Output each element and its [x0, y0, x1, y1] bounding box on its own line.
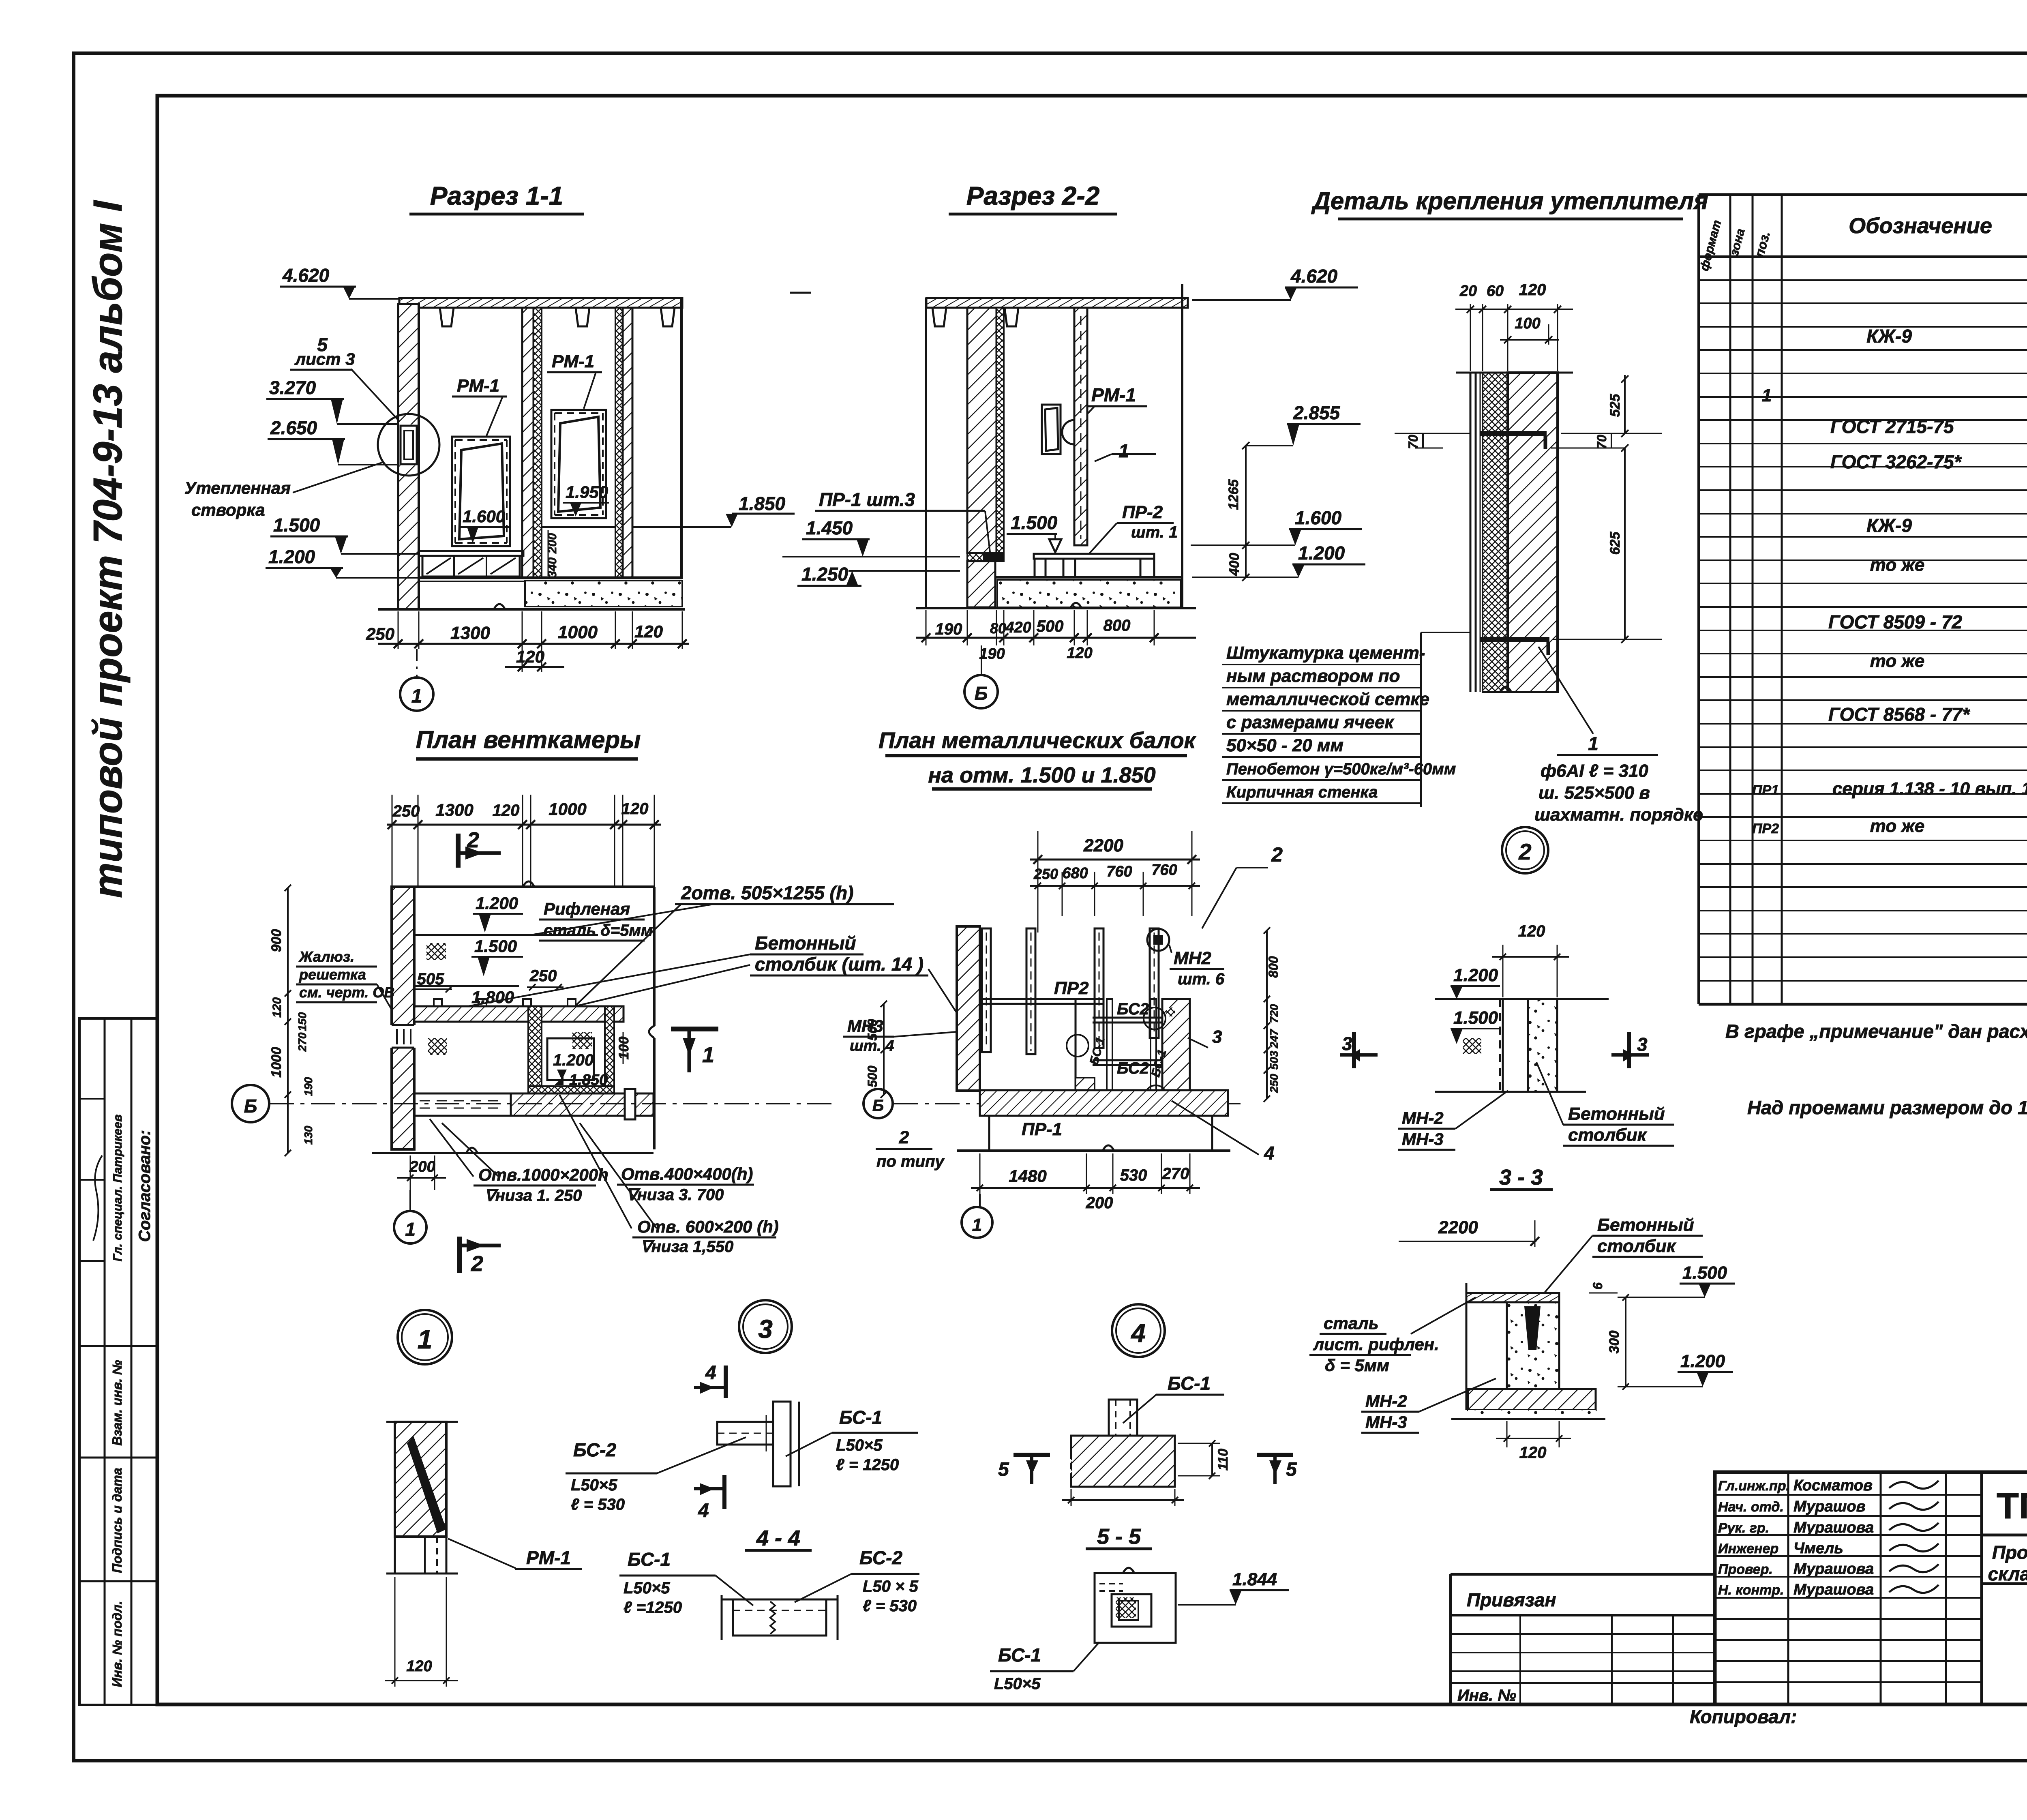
svg-text:1: 1 — [972, 1215, 982, 1235]
svg-text:Инженер: Инженер — [1718, 1541, 1778, 1556]
svg-text:Косматов: Косматов — [1793, 1477, 1873, 1494]
svg-text:Рук. гр.: Рук. гр. — [1718, 1520, 1769, 1536]
svg-text:1000: 1000 — [549, 800, 586, 819]
МН2 anchor circle — [1147, 929, 1169, 951]
plan inner floor edge — [414, 934, 598, 936]
svg-text:2.855: 2.855 — [1293, 402, 1341, 423]
svg-text:Утепленная: Утепленная — [184, 478, 291, 497]
svg-text:20: 20 — [1459, 283, 1477, 300]
svg-text:2отв. 505×1255 (h): 2отв. 505×1255 (h) — [681, 882, 853, 903]
svg-text:БС-1: БС-1 — [1168, 1373, 1211, 1394]
plan right boundary — [653, 887, 656, 1026]
svg-text:∇низа 3. 700: ∇низа 3. 700 — [626, 1186, 724, 1204]
svg-text:Б: Б — [872, 1097, 884, 1115]
svg-text:В графе „примечание" дан рас: В графе „примечание" дан расход материал… — [1725, 1020, 2027, 1042]
svg-text:лист. рифлен.: лист. рифлен. — [1313, 1335, 1439, 1354]
svg-text:ГОСТ 8568 - 77*: ГОСТ 8568 - 77* — [1828, 704, 1970, 725]
ground line — [378, 608, 685, 611]
gilza sleeve — [624, 1088, 636, 1120]
svg-text:120: 120 — [493, 802, 520, 819]
section 2-2 niche window — [1042, 405, 1061, 454]
svg-text:Мурашова: Мурашова — [1793, 1581, 1874, 1598]
svg-text:1.600: 1.600 — [1295, 507, 1342, 528]
section 1-1 middle wall — [522, 308, 534, 578]
detail right dim 625 — [1624, 448, 1626, 639]
svg-text:Отв.400×400(h): Отв.400×400(h) — [621, 1164, 753, 1183]
circle 1 balok — [979, 1194, 981, 1207]
svg-text:Разрез 1-1: Разрез 1-1 — [430, 181, 564, 210]
vertical dim chain 1265/400 — [1245, 446, 1247, 577]
section 1-1 left wall (hatched) — [398, 304, 419, 609]
svg-text:1.200: 1.200 — [553, 1051, 594, 1069]
svg-text:∇низа 1,550: ∇низа 1,550 — [641, 1238, 733, 1256]
svg-text:247: 247 — [1268, 1029, 1280, 1048]
section 2-2 left boundary — [925, 298, 927, 607]
svg-text:Мурашова: Мурашова — [1793, 1519, 1874, 1536]
svg-text:ГОСТ 3262-75*: ГОСТ 3262-75* — [1830, 451, 1962, 472]
section 1-1 right wall — [615, 308, 623, 578]
lintel band ПР-1 — [967, 553, 1004, 561]
svg-text:Инв. №: Инв. № — [1457, 1687, 1516, 1704]
section 1-1 roof corbels — [440, 308, 454, 326]
svg-text:150: 150 — [296, 1012, 309, 1031]
svg-text:1: 1 — [1762, 386, 1772, 405]
svg-text:2: 2 — [471, 1252, 483, 1276]
detail anchor ledge top — [1480, 431, 1547, 436]
svg-text:ным раствором по: ным раствором по — [1226, 666, 1400, 686]
svg-text:2: 2 — [1271, 843, 1283, 866]
svg-text:Гл. специал. Патрикеев: Гл. специал. Патрикеев — [111, 1115, 124, 1262]
svg-text:800: 800 — [1103, 617, 1131, 635]
section 2-2 roof slab — [926, 298, 1188, 308]
svg-text:120: 120 — [1067, 645, 1092, 662]
svg-text:420: 420 — [1005, 619, 1031, 636]
svg-text:δ = 5мм: δ = 5мм — [1325, 1356, 1389, 1375]
detail 1 dim 120 — [394, 1577, 396, 1687]
svg-text:склада нефтепродуктов емк. 1ты: склада нефтепродуктов емк. 1тыс.куб.м. — [1988, 1563, 2027, 1584]
svg-text:70: 70 — [1594, 435, 1609, 449]
section marker 2 (bottom) — [457, 1237, 462, 1273]
svg-text:5 - 5: 5 - 5 — [1097, 1524, 1141, 1549]
axis + circle Б (balok) — [894, 1103, 1241, 1104]
svg-text:3: 3 — [758, 1314, 773, 1344]
svg-text:3: 3 — [1342, 1033, 1352, 1054]
svg-text:130: 130 — [302, 1125, 315, 1145]
svg-text:Разрез 2-2: Разрез 2-2 — [966, 181, 1100, 210]
circle 1 below plan — [409, 1190, 411, 1211]
svg-text:110: 110 — [1215, 1449, 1231, 1471]
plan section marker 2 (top) — [456, 834, 461, 868]
svg-text:4: 4 — [705, 1362, 716, 1384]
svg-text:2.650: 2.650 — [270, 417, 317, 438]
svg-text:ПР1: ПР1 — [1752, 782, 1779, 798]
svg-text:серия 1.138 - 10 вып. 1: серия 1.138 - 10 вып. 1 — [1832, 779, 2027, 799]
svg-text:60: 60 — [1487, 283, 1504, 300]
svg-text:на отм. 1.500 и 1.850: на отм. 1.500 и 1.850 — [928, 763, 1155, 787]
plan ground line — [372, 1152, 654, 1154]
svg-text:ф6АI ℓ = 310: ф6АI ℓ = 310 — [1541, 761, 1648, 781]
crosshatch symbols — [426, 943, 446, 960]
svg-text:900: 900 — [269, 929, 284, 952]
svg-text:6: 6 — [1590, 1282, 1605, 1290]
svg-text:120: 120 — [1519, 281, 1546, 299]
svg-text:70: 70 — [1406, 435, 1421, 449]
svg-text:3 - 3: 3 - 3 — [1499, 1165, 1543, 1190]
title block signature columns — [1787, 1472, 1789, 1704]
ПР2 horizontal beam — [980, 998, 1103, 1000]
svg-text:800: 800 — [1266, 956, 1281, 978]
plan walls — [392, 887, 414, 1149]
section 2-2 roof corbels — [932, 308, 946, 326]
svg-text:ГОСТ 8509 - 72: ГОСТ 8509 - 72 — [1828, 611, 1963, 632]
svg-text:200: 200 — [409, 1158, 435, 1175]
svg-text:ПР2: ПР2 — [1054, 978, 1089, 998]
svg-text:Бетонный: Бетонный — [1597, 1215, 1694, 1235]
margin approval table (Согласовано) — [79, 1018, 157, 1346]
svg-text:3.270: 3.270 — [269, 377, 316, 398]
detail bottom break — [1500, 687, 1511, 692]
svg-text:270: 270 — [296, 1032, 309, 1052]
svg-text:РМ-1: РМ-1 — [552, 352, 594, 371]
detail right dim 70 — [1611, 433, 1612, 448]
concrete under floor 2-2 — [997, 580, 1181, 607]
svg-text:РМ-1: РМ-1 — [457, 376, 499, 396]
svg-text:4: 4 — [1264, 1143, 1275, 1164]
hanging beams ПР2 — [982, 928, 991, 1052]
svg-text:ℓ = 530: ℓ = 530 — [863, 1597, 917, 1615]
svg-text:760: 760 — [1151, 862, 1177, 879]
plan top boundary — [392, 885, 654, 888]
svg-text:столбик (шт. 14 ): столбик (шт. 14 ) — [755, 954, 924, 975]
svg-text:1000: 1000 — [558, 622, 598, 642]
svg-text:КЖ-9: КЖ-9 — [1866, 326, 1912, 347]
bench ПР-2 — [1034, 554, 1154, 559]
svg-text:МН-3: МН-3 — [1402, 1130, 1444, 1149]
dim 110 — [1211, 1443, 1213, 1476]
svg-text:1: 1 — [405, 1219, 416, 1240]
svg-text:Взам. инв. №: Взам. инв. № — [110, 1360, 124, 1446]
svg-text:500: 500 — [865, 1065, 880, 1087]
dimension row below section 1-1 — [398, 611, 399, 649]
svg-text:РМ-1: РМ-1 — [526, 1547, 571, 1568]
svg-text:Чмель: Чмель — [1793, 1540, 1843, 1557]
svg-text:столбик: столбик — [1597, 1236, 1677, 1256]
ventkamera box in plan balok — [1075, 999, 1077, 1090]
big circle detail 4 — [1112, 1304, 1165, 1357]
svg-text:525: 525 — [1607, 394, 1623, 417]
specification table grid — [1697, 195, 1700, 1004]
secondary dim 120 — [522, 649, 523, 672]
svg-text:то же: то же — [1870, 651, 1925, 671]
detail wall column: plaster lines — [1470, 373, 1472, 692]
3-3 dim 6 — [1589, 1293, 1618, 1294]
svg-text:1.500: 1.500 — [1011, 512, 1058, 533]
svg-text:4: 4 — [1130, 1318, 1146, 1348]
svg-text:БС-1: БС-1 — [628, 1549, 671, 1570]
detail top edge — [1456, 372, 1573, 374]
svg-text:Производственно-бытовой корпу: Производственно-бытовой корпус — [1992, 1542, 2027, 1563]
svg-text:БС-1: БС-1 — [839, 1407, 882, 1428]
svg-text:400: 400 — [1227, 553, 1242, 577]
svg-text:1300: 1300 — [450, 623, 490, 643]
plan bottom floor strip — [511, 1093, 654, 1116]
detail 2 column — [1499, 999, 1501, 1092]
section 1-1 insulated vent flap in wall — [399, 424, 418, 465]
detail brick strip — [1508, 373, 1558, 692]
svg-text:L50×5: L50×5 — [624, 1579, 670, 1597]
svg-text:Копировал:: Копировал: — [1690, 1706, 1797, 1727]
dim 200 below — [410, 1155, 411, 1190]
svg-text:Мурашова: Мурашова — [1793, 1561, 1874, 1578]
svg-text:Привязан: Привязан — [1467, 1589, 1556, 1610]
svg-text:1: 1 — [411, 686, 422, 707]
svg-text:ℓ =1250: ℓ =1250 — [624, 1599, 682, 1616]
marker circle 1 at niche — [1062, 420, 1086, 444]
svg-text:МН2: МН2 — [1174, 948, 1211, 968]
svg-text:100: 100 — [616, 1037, 632, 1060]
svg-text:1.600: 1.600 — [463, 507, 505, 526]
svg-text:∇низа 1. 250: ∇низа 1. 250 — [484, 1187, 582, 1205]
dim line below block — [1062, 1499, 1184, 1501]
svg-text:1.250: 1.250 — [801, 564, 849, 585]
svg-text:Бетонный: Бетонный — [755, 933, 856, 954]
svg-text:Жалюз.: Жалюз. — [298, 948, 354, 965]
svg-text:2: 2 — [467, 828, 479, 852]
svg-text:РМ-1: РМ-1 — [1091, 384, 1136, 405]
left vertical dims 500/500 — [883, 1004, 885, 1095]
inner room marks — [547, 1038, 594, 1080]
svg-text:1.844: 1.844 — [1232, 1569, 1277, 1589]
plan top dimension row — [392, 795, 393, 888]
section 2-2 inner wall — [1074, 308, 1087, 545]
svg-text:1.200: 1.200 — [1680, 1351, 1725, 1371]
svg-text:190: 190 — [979, 645, 1005, 662]
3-3 dim 120 — [1506, 1421, 1508, 1447]
title block outer — [1715, 1472, 2027, 1704]
svg-text:1.500: 1.500 — [273, 514, 320, 536]
svg-text:МН-2: МН-2 — [1402, 1108, 1444, 1128]
svg-text:ПР-1: ПР-1 — [1022, 1119, 1062, 1139]
big circle detail 1 — [398, 1310, 452, 1364]
plan mid floor line — [414, 985, 519, 987]
svg-text:1300: 1300 — [435, 800, 473, 819]
svg-text:Провер.: Провер. — [1718, 1562, 1773, 1577]
svg-text:Н. контр.: Н. контр. — [1718, 1582, 1784, 1598]
floor line at 1.200 — [419, 577, 682, 579]
svg-text:300: 300 — [1607, 1331, 1622, 1354]
svg-text:503: 503 — [1268, 1050, 1280, 1070]
svg-text:ТП: ТП — [1997, 1486, 2027, 1526]
ПР-1 slab below — [989, 1116, 1212, 1151]
detail 1: wall with flap — [386, 1421, 458, 1423]
leader and label pos 1 — [1538, 647, 1593, 734]
svg-text:то же: то же — [1870, 555, 1925, 575]
detail 2 dim 120 — [1502, 945, 1504, 997]
svg-text:270: 270 — [1162, 1165, 1189, 1183]
wall below lintel — [967, 561, 995, 607]
section 1-1 roof slab — [790, 292, 811, 294]
section marker 1 (right) — [671, 1027, 718, 1031]
svg-text:Инв. № подл.: Инв. № подл. — [110, 1601, 124, 1687]
svg-text:4.620: 4.620 — [1290, 266, 1338, 287]
window RM-1 no.2 — [551, 410, 606, 518]
svg-text:ПР-2: ПР-2 — [1122, 502, 1163, 522]
svg-text:КЖ-9: КЖ-9 — [1866, 515, 1912, 536]
margin stamp table (Взам.инв / Подпись / Инв №) — [79, 1346, 157, 1705]
svg-text:120: 120 — [634, 622, 663, 641]
svg-text:120: 120 — [1519, 1444, 1547, 1462]
svg-text:200: 200 — [1086, 1194, 1113, 1212]
svg-text:БС-2: БС-2 — [573, 1439, 617, 1460]
plan balok top dims — [1037, 831, 1039, 933]
svg-text:шахматн. порядке: шахматн. порядке — [1534, 805, 1703, 825]
svg-text:ПР2: ПР2 — [1752, 821, 1779, 836]
detail circle on wall — [378, 414, 439, 476]
svg-text:250: 250 — [529, 967, 557, 985]
svg-text:190: 190 — [302, 1077, 315, 1096]
svg-text:5: 5 — [1286, 1459, 1297, 1480]
svg-text:2200: 2200 — [1438, 1218, 1478, 1237]
svg-text:100: 100 — [1515, 315, 1540, 332]
detail 4 beam into block — [1109, 1400, 1137, 1436]
detail top dims 20 60 120 — [1470, 304, 1471, 371]
svg-text:Нач. отд.: Нач. отд. — [1718, 1499, 1784, 1515]
svg-text:1.200: 1.200 — [1453, 965, 1498, 985]
svg-text:500: 500 — [1037, 617, 1064, 635]
svg-text:1.200: 1.200 — [268, 546, 315, 567]
svg-text:L50 × 5: L50 × 5 — [863, 1578, 919, 1595]
svg-text:2: 2 — [1518, 839, 1531, 864]
detail right dim 525 — [1624, 375, 1626, 433]
svg-text:250: 250 — [366, 624, 394, 643]
note block bracket — [1420, 632, 1422, 807]
svg-text:2200: 2200 — [1083, 836, 1123, 855]
detail anchor ledge bottom — [1480, 637, 1549, 642]
svg-text:1.950: 1.950 — [566, 482, 608, 502]
svg-text:720: 720 — [1268, 1004, 1280, 1023]
svg-text:120: 120 — [621, 800, 649, 818]
svg-text:L50×5: L50×5 — [571, 1476, 617, 1494]
svg-text:лист 3: лист 3 — [294, 349, 355, 369]
3-3 drawing — [1466, 1283, 1468, 1410]
axis circle Б (2-2) — [981, 645, 982, 674]
svg-text:5: 5 — [998, 1459, 1009, 1480]
svg-text:120: 120 — [1518, 922, 1545, 940]
window RM-1 no.1 — [452, 437, 510, 546]
section 2-2 left wall hatched — [967, 308, 996, 553]
svg-text:50×50 - 20 мм: 50×50 - 20 мм — [1226, 735, 1343, 755]
raised floor level 1.850 — [542, 526, 615, 528]
ventkamera box walls — [528, 1006, 542, 1095]
detail 2: top line — [1435, 998, 1609, 1000]
inner beams БС — [1093, 1017, 1161, 1019]
svg-text:Штукатурка цемент-: Штукатурка цемент- — [1226, 643, 1425, 663]
ground line 2-2 — [916, 607, 1196, 609]
svg-text:625: 625 — [1607, 532, 1623, 555]
svg-text:по типу: по типу — [876, 1153, 945, 1170]
svg-text:см. черт. ОВ: см. черт. ОВ — [299, 984, 394, 1001]
leader to Утепленная створка — [293, 462, 383, 493]
section 2-2 right boundary — [1181, 284, 1183, 608]
right vertical dims balok — [1266, 930, 1268, 1099]
svg-text:1: 1 — [1588, 733, 1598, 754]
big circle detail 3 — [739, 1300, 792, 1353]
3-3 dim 300 — [1625, 1297, 1626, 1387]
svg-text:250: 250 — [1033, 866, 1058, 882]
svg-text:1: 1 — [1118, 440, 1129, 461]
svg-text:металлической сетке: металлической сетке — [1226, 689, 1429, 709]
svg-text:1480: 1480 — [1009, 1166, 1046, 1185]
svg-text:с размерами ячеек: с размерами ячеек — [1226, 712, 1395, 732]
svg-text:План металлических балок: План металлических балок — [879, 727, 1196, 753]
svg-text:Гл.инж.пр.: Гл.инж.пр. — [1718, 1478, 1790, 1494]
axis circle 1 — [416, 649, 418, 676]
ventkamera hatched top strip — [414, 1006, 624, 1022]
dimension row below section 2-2 — [926, 610, 927, 645]
detail 3: 4 markers — [724, 1366, 728, 1398]
svg-text:Деталь крепления утеплителя: Деталь крепления утеплителя — [1311, 187, 1708, 214]
svg-text:Бетонный: Бетонный — [1568, 1104, 1665, 1124]
svg-text:1.500: 1.500 — [1453, 1008, 1498, 1028]
svg-text:1.500: 1.500 — [1682, 1263, 1727, 1283]
svg-text:ГОСТ 2715-75: ГОСТ 2715-75 — [1830, 416, 1954, 437]
svg-text:L50×5: L50×5 — [994, 1675, 1041, 1693]
svg-text:1.450: 1.450 — [806, 517, 853, 538]
svg-text:4.620: 4.620 — [282, 265, 330, 286]
svg-text:шт. 6: шт. 6 — [1178, 970, 1225, 988]
svg-text:1: 1 — [418, 1324, 433, 1354]
svg-text:250: 250 — [392, 802, 420, 820]
svg-text:МН-2: МН-2 — [1365, 1391, 1407, 1411]
svg-text:то же: то же — [1870, 816, 1925, 836]
svg-text:500: 500 — [865, 1019, 880, 1041]
svg-text:120: 120 — [270, 997, 284, 1018]
svg-text:БС2: БС2 — [1117, 1059, 1149, 1077]
svg-text:ш. 525×500 в: ш. 525×500 в — [1538, 783, 1650, 803]
detail circle 2 — [1502, 827, 1548, 873]
svg-text:3: 3 — [1637, 1034, 1648, 1055]
svg-text:80: 80 — [990, 620, 1006, 637]
svg-text:1.850: 1.850 — [739, 493, 786, 514]
svg-text:L50×5: L50×5 — [836, 1436, 883, 1454]
svg-text:250: 250 — [1268, 1074, 1280, 1093]
svg-text:шт. 1: шт. 1 — [1131, 523, 1178, 541]
svg-text:120: 120 — [516, 647, 544, 666]
detail left dim 70 — [1415, 433, 1470, 434]
window sill bench — [419, 551, 523, 556]
svg-text:Рифленая: Рифленая — [544, 899, 630, 918]
plan balok left wall — [957, 926, 980, 1091]
svg-text:Кирпичная стенка: Кирпичная стенка — [1226, 783, 1378, 801]
svg-text:типовой проект 704-9-13 ал: типовой проект 704-9-13 альбом I — [85, 200, 131, 898]
svg-text:сталь: сталь — [1324, 1314, 1379, 1333]
detail dim 100 — [1507, 324, 1508, 345]
svg-text:Отв. 600×200 (h): Отв. 600×200 (h) — [637, 1217, 779, 1236]
svg-text:1: 1 — [702, 1043, 714, 1067]
5-5 drawing — [1095, 1573, 1176, 1643]
svg-text:3: 3 — [1212, 1027, 1222, 1047]
svg-text:4 - 4: 4 - 4 — [756, 1526, 800, 1550]
svg-text:Б: Б — [975, 683, 988, 704]
floor strip balok — [980, 1090, 1228, 1116]
svg-text:Над проемами размером до 1.: Над проемами размером до 1.00м проложить… — [1747, 1097, 2027, 1118]
svg-text:1000: 1000 — [269, 1047, 284, 1078]
svg-text:ℓ = 1250: ℓ = 1250 — [836, 1456, 899, 1474]
svg-text:1.200: 1.200 — [476, 894, 518, 913]
svg-text:1.850: 1.850 — [569, 1072, 608, 1089]
svg-text:190: 190 — [935, 620, 962, 638]
svg-text:1.200: 1.200 — [1298, 542, 1345, 564]
